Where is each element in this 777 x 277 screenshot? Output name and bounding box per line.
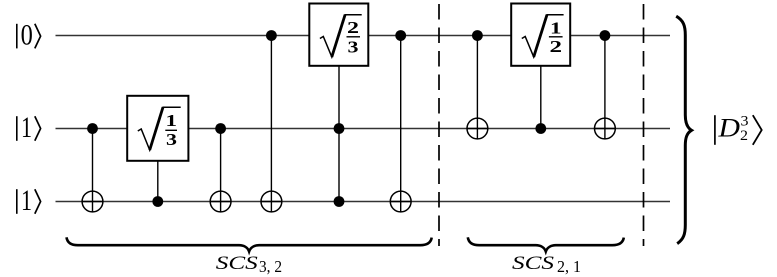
svg-text:2: 2 [347,18,359,37]
wire col9 vertical [604,36,606,140]
CNOT target col4 q2 [261,191,282,212]
control dot col6 q0 [395,30,406,41]
gate box sqrt(1/3) on q1 [127,96,188,161]
svg-text:3: 3 [348,38,359,57]
svg-text:SCS: SCS [216,253,259,274]
svg-text:2: 2 [550,37,563,56]
control dot col1 q1 [87,123,98,134]
label SCS_{3,2} [216,253,282,276]
control dot col5 q2 [334,196,345,207]
CNOT target col3 q2 [210,191,231,212]
wire col8 vertical [540,66,542,129]
ket |1> label q2 [17,185,41,217]
wire col3 vertical [220,129,222,213]
CNOT target col7 q1 [467,118,488,139]
ket |1> label q1 [17,112,41,144]
svg-text:3: 3 [741,113,749,129]
gate box sqrt(1/2) on q0 [511,4,570,66]
svg-text:1: 1 [166,111,178,130]
wire q1 [56,128,671,130]
node label |D_2^3> [715,113,762,145]
svg-text:3: 3 [166,130,177,149]
control dot col5 q1 [334,123,345,134]
gate box sqrt(2/3) on q0 [309,4,368,66]
underbrace SCS_{3,2} [67,237,432,251]
wire col6 vertical [400,36,402,213]
control dot col7 q0 [472,30,483,41]
control dot col3 q1 [215,123,226,134]
CNOT target col1 q2 [82,191,103,212]
control dot col8 q1 [535,123,546,134]
wire q0 [56,35,671,37]
svg-text:SCS: SCS [512,253,555,274]
dashed separator 2 [643,4,645,246]
underbrace SCS_{2,1} [468,237,624,251]
wire col7 vertical [476,36,478,140]
control dot col2 q2 [152,196,163,207]
svg-text:3, 2: 3, 2 [259,257,282,276]
svg-text:0: 0 [21,20,33,52]
CNOT target col6 q2 [390,191,411,212]
dashed separator 1 [438,4,440,246]
wire q2 [56,201,671,203]
svg-text:1: 1 [21,185,32,217]
wire col2 vertical [157,161,159,202]
svg-text:D: D [717,113,740,143]
svg-text:2, 1: 2, 1 [557,257,581,276]
CNOT target col9 q1 [595,118,616,139]
wire col5 vertical [338,66,340,202]
svg-text:1: 1 [21,112,32,144]
control dot col9 q0 [600,30,611,41]
ket |0> label q0 [17,20,41,52]
label SCS_{2,1} [512,253,581,276]
right brace [676,16,691,243]
svg-text:1: 1 [550,18,562,37]
wire col4 vertical [270,36,272,213]
wire col1 vertical [92,129,94,213]
svg-text:2: 2 [740,128,748,144]
control dot col4 q0 [266,30,277,41]
